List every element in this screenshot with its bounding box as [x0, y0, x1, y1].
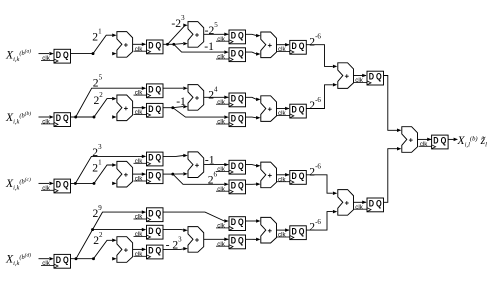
wire DQ4d to A_cd [306, 210, 337, 230]
input label X_ik^(b)(b) [5, 110, 31, 125]
svg-text:clk: clk [217, 166, 225, 173]
register DQ3a_bot [216, 48, 246, 62]
svg-text:clk: clk [217, 241, 225, 248]
svg-text:D Q: D Q [148, 226, 161, 236]
svg-text:clk: clk [217, 54, 225, 61]
register DQ3b_top [216, 93, 246, 107]
adder A_final [402, 127, 418, 153]
wire DQ3a_top to A3a [246, 34, 261, 38]
svg-text:D Q: D Q [231, 48, 244, 58]
register DQ2d_mid [134, 225, 164, 239]
wire 2^3 shift [75, 155, 146, 184]
wire 2^2 shift d [94, 239, 117, 259]
svg-text:D Q: D Q [148, 84, 161, 94]
wire 2^9 line to DQ3d_top [163, 212, 229, 223]
adder A1c [117, 161, 133, 187]
output label X_il^(b) z~_l [457, 134, 488, 149]
register DQ2b_bot [134, 103, 164, 117]
node J2b [171, 106, 174, 109]
wire DQ3b_top to A3b [246, 97, 261, 101]
svg-text:D Q: D Q [231, 31, 244, 41]
adder A1b [117, 95, 133, 121]
svg-text:D Q: D Q [148, 41, 161, 51]
adder A2c [188, 152, 204, 178]
wire DQ1d out [71, 258, 94, 260]
wire 2^1 shift [93, 33, 117, 53]
wire A1c to DQ2c_bot [133, 172, 147, 176]
node J1a [92, 52, 95, 55]
svg-text:clk: clk [278, 232, 286, 239]
wire input d [39, 257, 54, 261]
svg-text:D Q: D Q [148, 104, 161, 114]
register DQ2c_bot [134, 170, 164, 184]
wire A_final to DQ_final [418, 138, 432, 142]
wire A2b to DQ3b_top [204, 96, 229, 100]
adder A3d [261, 217, 277, 243]
node J2c [171, 173, 174, 176]
label -1 (row b) [176, 95, 186, 108]
adder A3b [261, 96, 277, 122]
node J1d1 [75, 257, 78, 260]
svg-text:D Q: D Q [148, 208, 161, 218]
svg-text:clk: clk [278, 110, 286, 117]
adder A2b [188, 85, 204, 111]
label 2^-6 (row b) [309, 96, 321, 112]
wire A2c to DQ3c_top [204, 163, 229, 167]
svg-text:D Q: D Q [231, 217, 244, 227]
node J1b2 [93, 116, 96, 119]
svg-text:clk: clk [135, 158, 143, 165]
register DQ3b_bot [216, 113, 246, 127]
register DQ3c_bot [216, 180, 246, 194]
wire A2d to DQ3d_bot [204, 238, 229, 242]
label 2^3 (row c) [92, 143, 102, 159]
svg-text:clk: clk [420, 141, 428, 148]
svg-text:D Q: D Q [231, 113, 244, 123]
svg-text:clk: clk [135, 251, 143, 258]
wire unity tap d [93, 228, 147, 232]
wire output [448, 138, 458, 142]
label -2^5 [205, 21, 219, 37]
svg-text:clk: clk [135, 214, 143, 221]
svg-text:clk: clk [217, 119, 225, 126]
adder A3a [261, 32, 277, 58]
label -2^3 (row d) [166, 236, 183, 252]
register DQ4a [277, 40, 307, 54]
wire 2^9 shift [76, 210, 146, 258]
register DQ4d [277, 226, 307, 240]
wire DQ1a out [71, 53, 94, 55]
wire straight a [112, 52, 116, 56]
wire DQ3d_top to A3d [246, 219, 261, 223]
wire DQ2d_mid to A2d [163, 228, 188, 232]
wire A_cd to DQ_cd [354, 201, 367, 205]
register DQ1d [41, 254, 71, 268]
adder A1a [117, 32, 133, 58]
svg-text:D Q: D Q [231, 94, 244, 104]
register DQ2d_bot [134, 245, 164, 259]
wire DQ2c_top to A2c [163, 154, 188, 158]
label 2^-6 (row d) [309, 218, 321, 234]
node J_d mid [91, 228, 94, 231]
label 2^-6 (row c) [309, 163, 321, 179]
svg-text:clk: clk [135, 176, 143, 183]
svg-text:D Q: D Q [56, 180, 69, 190]
adder A1d [117, 237, 133, 263]
svg-text:clk: clk [217, 223, 225, 230]
label 2^1 (row a) [92, 28, 102, 44]
svg-text:D Q: D Q [292, 226, 305, 236]
node J1c1 [74, 182, 77, 185]
wire -2^3 shift [168, 23, 188, 44]
register DQ1a [41, 49, 71, 63]
svg-text:D Q: D Q [148, 246, 161, 256]
svg-text:D Q: D Q [292, 41, 305, 51]
label 2^1 (row c) [92, 159, 102, 175]
wire DQ4b to A_ab [306, 83, 337, 108]
label 2^2 (row d) [93, 231, 103, 247]
wire DQ3c_top to A3c [246, 164, 261, 168]
register DQ2c_top [134, 152, 164, 166]
wire DQ_cd to final adder [384, 147, 402, 202]
wire into A2c bottom [173, 172, 188, 176]
input label X_ik^(b)(d) [5, 252, 31, 267]
wire DQ4a to A_ab [306, 45, 337, 68]
svg-text:clk: clk [135, 109, 143, 116]
svg-text:D Q: D Q [231, 181, 244, 191]
register DQ1c [41, 179, 71, 193]
register DQ2a [134, 40, 164, 54]
label -1 (row a bypass) [204, 40, 214, 53]
svg-text:D Q: D Q [231, 236, 244, 246]
wire 2^2 shift [94, 97, 117, 117]
adder A_cd [338, 190, 354, 216]
wire DQ2b_bot out [163, 107, 173, 109]
node J2a1 [166, 43, 169, 46]
svg-text:D Q: D Q [148, 170, 161, 180]
wire -1 into A2b [173, 105, 188, 109]
svg-text:clk: clk [42, 185, 50, 192]
svg-text:clk: clk [42, 55, 50, 62]
wire DQ3c_bot to A3c [246, 182, 261, 186]
wire DQ3a_bot to A3a [246, 52, 261, 56]
wire DQ1b out [71, 116, 95, 118]
svg-text:D Q: D Q [148, 153, 161, 163]
wire input b [39, 115, 54, 119]
svg-text:clk: clk [42, 119, 50, 126]
register DQ4b [277, 104, 307, 118]
label 2^6 [208, 171, 218, 187]
wire DQ4c to A_cd [306, 175, 337, 195]
wire A3b to DQ4b [277, 107, 290, 111]
wire DQ3b_bot to A3b [246, 116, 261, 120]
register DQ3c_top [216, 160, 246, 174]
svg-text:D Q: D Q [231, 161, 244, 171]
wire DQ2c_bot out [163, 173, 173, 175]
wire DQ3d_bot to A3d [246, 238, 261, 242]
label 2^-6 (row a) [309, 32, 321, 48]
svg-text:D Q: D Q [292, 171, 305, 181]
label 2^2 (row b) [94, 91, 104, 107]
wire DQ2a out [163, 43, 174, 45]
register DQ_ab [354, 71, 384, 85]
wire A1b to DQ2b_bot [133, 106, 147, 110]
label 2^4 [208, 86, 218, 102]
label 2^5 (row b) [93, 74, 103, 90]
wire bypass a [174, 44, 229, 54]
wire straight d [112, 257, 116, 261]
input label X_ik^(b)(a) [5, 47, 31, 62]
node J1b1 [74, 116, 77, 119]
register DQ1b [41, 113, 71, 127]
wire straight c [112, 182, 116, 186]
svg-text:D Q: D Q [56, 255, 69, 265]
svg-text:clk: clk [355, 77, 363, 84]
svg-text:clk: clk [135, 231, 143, 238]
register DQ3a_top [216, 30, 246, 44]
svg-text:clk: clk [217, 186, 225, 193]
svg-text:clk: clk [42, 260, 50, 267]
svg-text:clk: clk [217, 99, 225, 106]
svg-text:D Q: D Q [369, 199, 382, 209]
wire DQ2b_top to A2b [163, 86, 188, 90]
wire A3a to DQ4a [277, 43, 290, 47]
svg-text:clk: clk [278, 46, 286, 53]
svg-text:clk: clk [355, 204, 363, 211]
svg-text:D Q: D Q [369, 72, 382, 82]
wire A3c to DQ4c [277, 173, 290, 177]
wire bypass c [173, 174, 229, 186]
wire bypass b [173, 108, 229, 119]
register DQ3d_bot [216, 235, 246, 249]
register DQ3d_top [216, 217, 246, 231]
svg-text:D Q: D Q [292, 105, 305, 115]
wire DQ_ab to final adder [384, 76, 402, 133]
register DQ_final [419, 135, 449, 149]
svg-text:-1: -1 [204, 40, 214, 53]
wire 2^1 shift c [94, 163, 117, 183]
wire straight a2 [174, 42, 188, 46]
wire A3d to DQ4d [277, 228, 290, 232]
wire input c [39, 182, 54, 186]
node J1c2 [93, 182, 96, 185]
adder A2d [188, 227, 204, 253]
label 2^9 [93, 204, 103, 220]
node J2a2 [172, 43, 175, 46]
svg-text:D Q: D Q [56, 50, 69, 60]
register DQ_cd [354, 198, 384, 212]
register DQ2d_top [134, 208, 164, 222]
svg-text:clk: clk [217, 36, 225, 43]
svg-text:clk: clk [135, 90, 143, 97]
wire A_ab to DQ_ab [354, 74, 367, 78]
wire DQ2d_bot to A2d [163, 247, 188, 251]
adder A2a [188, 22, 204, 48]
svg-text:clk: clk [278, 176, 286, 183]
register DQ2b_top [134, 84, 164, 98]
wire A1a to DQ2a [133, 43, 147, 47]
wire 2^5 shift [76, 86, 147, 117]
svg-text:D Q: D Q [433, 136, 446, 146]
svg-text:clk: clk [135, 46, 143, 53]
wire A1d to DQ2d_bot [133, 248, 147, 252]
label -2^3 [171, 14, 185, 30]
register DQ4c [277, 171, 307, 185]
wire DQ1c out [71, 182, 95, 184]
wire straight b [112, 115, 116, 119]
adder A_ab [338, 63, 354, 89]
wire input a [39, 52, 54, 56]
wire A2a to DQ3a_top [204, 33, 229, 37]
input label X_ik^(b)(c) [5, 176, 31, 191]
label -1 (row c) [205, 154, 215, 167]
adder A3c [261, 162, 277, 188]
svg-text:D Q: D Q [56, 113, 69, 123]
node J1d2 [92, 257, 95, 260]
